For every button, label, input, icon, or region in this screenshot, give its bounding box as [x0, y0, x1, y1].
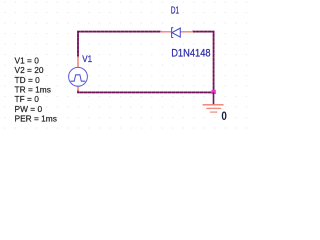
svg-text:0: 0: [221, 109, 227, 123]
V1 bottom pin: [77, 86, 79, 91]
svg-text:TR = 1ms: TR = 1ms: [15, 85, 51, 95]
svg-text:V1 = 0: V1 = 0: [15, 55, 40, 65]
ground bar 3: [210, 111, 218, 113]
D1 triangle: [172, 28, 180, 37]
diode D1: [161, 6, 211, 60]
svg-text:D1N4148: D1N4148: [171, 48, 210, 60]
ground bar 2: [206, 107, 221, 109]
V1 circle body: [69, 67, 88, 86]
junction dot: [212, 90, 216, 94]
D1 cathode bar: [172, 27, 174, 37]
ground stub: [213, 92, 215, 104]
V1 pulse waveform glyph: [71, 75, 86, 81]
wire top-right segment + right vertical: [193, 32, 214, 93]
svg-text:TD = 0: TD = 0: [15, 75, 41, 85]
voltage source V1: [69, 54, 93, 92]
svg-text:PW = 0: PW = 0: [15, 104, 43, 114]
ground symbol (0 net): [203, 92, 228, 123]
wire bottom segment: [78, 91, 214, 93]
ground bar 1: [203, 104, 224, 106]
D1 left pin (cathode side): [161, 31, 172, 33]
svg-text:V1: V1: [82, 54, 92, 64]
D1 right pin (anode side): [181, 31, 194, 33]
svg-text:TF = 0: TF = 0: [15, 94, 40, 104]
svg-text:D1: D1: [171, 6, 179, 17]
svg-text:V2 = 20: V2 = 20: [15, 65, 44, 75]
V1 parameter list text: [15, 55, 57, 123]
V1 top pin: [77, 56, 79, 67]
wire left vertical + top-left segment: [78, 32, 161, 57]
svg-text:PER = 1ms: PER = 1ms: [15, 114, 57, 124]
